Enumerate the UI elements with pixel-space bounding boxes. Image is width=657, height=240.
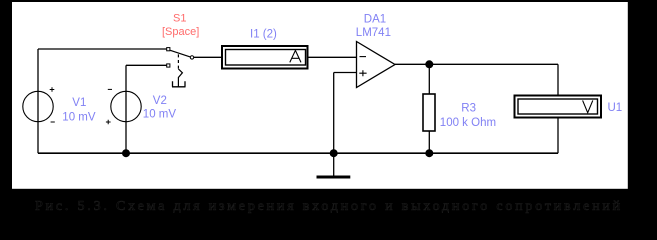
svg-text:10 mV: 10 mV: [62, 111, 96, 123]
ammeter I1: [222, 46, 308, 69]
svg-text:V1: V1: [72, 97, 86, 109]
wire: V1 vertical through source: [37, 49, 39, 153]
wire: bottom ground rail: [38, 152, 558, 154]
node: junction R3 on output wire: [425, 60, 433, 68]
voltage source V2: [106, 89, 141, 124]
wire: ammeter to op-amp inverting input: [309, 56, 357, 58]
svg-text:LM741: LM741: [356, 27, 391, 39]
wire: right bend down to voltmeter top: [557, 64, 559, 94]
wire: R3 top lead: [428, 64, 430, 94]
voltmeter U1: [515, 96, 602, 118]
wire: voltmeter bottom down to rail: [557, 119, 559, 154]
node: junction ground on rail: [330, 149, 338, 157]
op-amp DA1: [357, 42, 396, 88]
svg-text:I1 (2): I1 (2): [250, 28, 277, 40]
svg-text:10 mV: 10 mV: [143, 109, 177, 121]
node: junction R3 on rail: [425, 149, 433, 157]
node: junction V2 on rail: [122, 149, 130, 157]
svg-text:100 k Ohm: 100 k Ohm: [440, 117, 496, 129]
resistor R3: [423, 94, 435, 131]
ground: [317, 153, 351, 177]
svg-text:[Space]: [Space]: [162, 26, 199, 38]
svg-text:S1: S1: [173, 13, 186, 25]
svg-text:V2: V2: [153, 95, 167, 107]
voltage source V1: [23, 87, 55, 122]
svg-text:Рис. 5.3. Схема для измерения: Рис. 5.3. Схема для измерения входного и…: [35, 199, 623, 214]
wire: non-inverting input down to ground rail: [333, 73, 335, 154]
wire: non-inverting input horizontal: [334, 72, 357, 74]
svg-text:R3: R3: [461, 102, 476, 114]
wire: R3 bottom lead: [428, 131, 430, 153]
wire: V2 horizontal to switch lower terminal: [126, 64, 167, 66]
svg-text:DA1: DA1: [364, 13, 386, 25]
wire: V2 vertical through source: [125, 65, 127, 153]
wire: top horizontal V1 to switch: [38, 48, 167, 50]
switch S1: [167, 48, 194, 87]
white schematic sheet: [12, 2, 628, 189]
wire: switch to ammeter: [194, 56, 221, 58]
svg-text:U1: U1: [608, 102, 623, 114]
wire: op-amp output to right bend: [395, 63, 558, 65]
